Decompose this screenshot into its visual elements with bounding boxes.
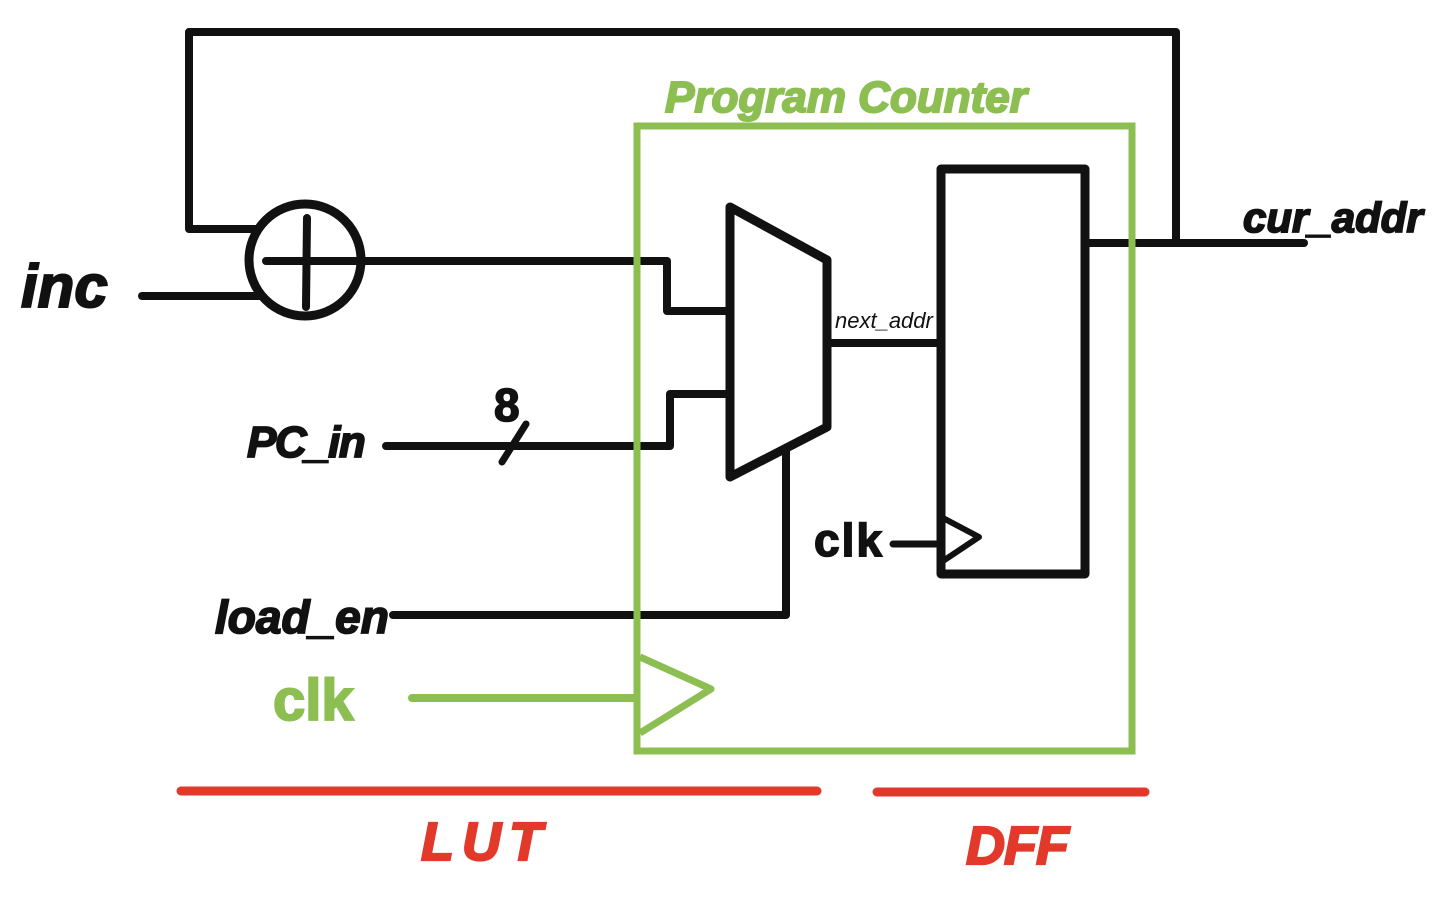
flip-flop U3 (DFF) (941, 169, 1085, 574)
wire clk (green) (412, 694, 634, 702)
wire clk to DFF (893, 541, 938, 548)
wire mux output next_addr (829, 339, 941, 347)
wire load_en to mux select (393, 449, 786, 615)
svg-text:PC_in: PC_in (247, 418, 365, 467)
svg-text:8: 8 (494, 379, 520, 431)
module box Program Counter (637, 126, 1132, 751)
wire DFF output cur_addr (1087, 239, 1304, 247)
adder U1 (249, 204, 361, 316)
annotation underline LUT (181, 787, 817, 796)
svg-text:load_en: load_en (215, 591, 389, 643)
svg-text:clk: clk (814, 514, 884, 566)
wire inc input (142, 292, 260, 300)
wire feedback loop (top) (189, 32, 1176, 243)
wire adder output to mux input 0 (266, 261, 729, 311)
clock pin triangle on module box (640, 657, 711, 733)
mux U2 (730, 207, 827, 477)
bus width 8 slash (502, 424, 526, 462)
annotation underline DFF (877, 788, 1145, 797)
svg-text:cur_addr: cur_addr (1243, 194, 1425, 241)
svg-text:inc: inc (21, 253, 108, 320)
svg-text:clk: clk (273, 668, 354, 733)
clock pin triangle on DFF (943, 518, 979, 561)
svg-text:Program Counter: Program Counter (665, 73, 1030, 122)
wire PC_in to mux input 1 (386, 394, 729, 446)
svg-text:next_addr: next_addr (835, 308, 935, 333)
svg-text:DFF: DFF (966, 816, 1071, 876)
svg-text:LUT: LUT (421, 812, 550, 872)
